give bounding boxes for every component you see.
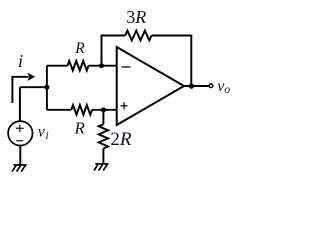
wire feedback right vertical (190, 35, 192, 86)
wire upper branch left (47, 65, 68, 67)
wire feedback top left (101, 35, 126, 37)
wire node C to 2R (102, 110, 104, 124)
wire op-amp output (184, 85, 209, 87)
wire source to node A (20, 86, 47, 88)
svg-text:vo: vo (217, 78, 230, 96)
wire feedback left vertical (101, 36, 103, 66)
node B (inverting input node) (99, 63, 104, 68)
wire source bottom to ground (19, 146, 21, 166)
svg-text:2R: 2R (110, 129, 131, 150)
node A (44, 85, 49, 90)
ground (under 2R) (94, 164, 109, 171)
wire lower branch left (47, 109, 71, 111)
ground (under source) (12, 165, 27, 172)
node C (non-inverting input node) (101, 107, 106, 112)
resistor R3 (3R feedback) (125, 31, 151, 41)
resistor R2 (lower R) (71, 105, 92, 115)
wire lower branch right (92, 109, 117, 111)
wire source top riser (19, 87, 21, 121)
wire feedback top right (152, 35, 192, 37)
wire input vertical (46, 66, 48, 110)
op-amp U1 (117, 47, 184, 125)
svg-text:vi: vi (38, 124, 49, 142)
resistor R1 (upper R) (68, 61, 89, 71)
svg-text:i: i (18, 51, 23, 71)
wire upper branch right (89, 65, 117, 67)
node D (output node) (189, 83, 194, 88)
terminal vo (209, 84, 213, 88)
svg-text:R: R (74, 118, 86, 137)
resistor R4 (2R) (99, 124, 108, 148)
current arrow i (12, 73, 35, 103)
svg-text:R: R (74, 40, 85, 57)
wire 2R to ground (102, 149, 104, 164)
voltage source V1 (vi) (8, 121, 32, 145)
svg-text:3R: 3R (126, 7, 146, 27)
